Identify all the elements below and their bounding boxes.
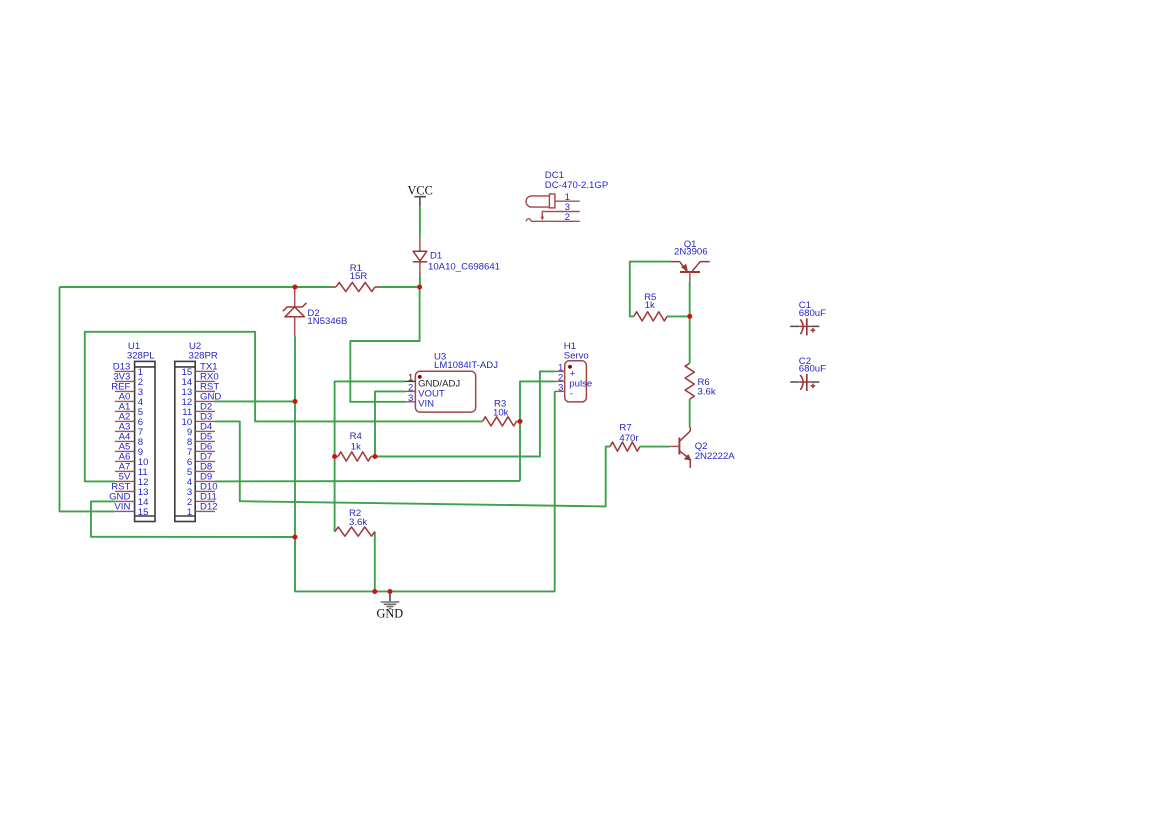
junction R4 left with U3 ADJ net [332,454,337,459]
ground symbol GND [376,591,403,620]
wire R7 right to Q2 base [640,446,670,448]
U3 pin 3 VIN [405,393,434,410]
wire R2 right lead down to bottom rail [374,532,376,592]
U1 pin 13 RST [111,482,148,499]
svg-text:-: - [570,388,573,399]
svg-text:VIN: VIN [418,399,434,410]
svg-text:2: 2 [408,382,413,393]
U3 pin 1 GND/ADJ [405,372,460,389]
svg-text:10k: 10k [493,408,509,419]
svg-text:2: 2 [565,212,570,223]
junction node B R1-D2 [293,285,298,290]
wire D1 cathode junction to U3 VIN pin 3 [350,287,419,402]
wire R1 right to D1 junction [379,286,420,288]
power flag VCC [408,183,433,206]
junction R2 at bottom rail [372,589,377,594]
U1 pin 8 A4 [115,432,143,449]
wire GND bottom rail [295,537,555,591]
DC1 pin 3 [540,202,579,220]
resistor R6 [685,363,716,399]
svg-text:VIN: VIN [114,502,130,513]
diode D1 [413,237,500,275]
svg-text:2N3906: 2N3906 [674,247,708,258]
wire U2 D3 pin 10 to R7 left [215,421,610,506]
U2 pin 15 TX1 [182,362,218,379]
wire H1 plus pin 1 to R4 right junction [375,371,555,456]
U2 pin 7 D6 [187,442,215,459]
wire D1 cathode to junction [419,275,421,287]
wire H1 pulse pin 2 down through R3 junction [520,381,555,481]
connector U2 328PR body [175,341,218,521]
svg-text:3.6k: 3.6k [349,517,367,528]
U2 pin 2 D11 [187,492,217,509]
wire left rail down to U1 VIN pin 15 [60,287,115,511]
svg-text:1k: 1k [351,442,361,453]
U2 pin 4 D9 [187,472,215,489]
capacitor C2 [790,356,826,391]
wire VCC to D1 anode [419,206,421,237]
wire Q1 emitter loop to R5 left [630,262,671,317]
U1 pin 1 D13 [113,362,143,379]
svg-text:328PR: 328PR [189,350,218,361]
U1 pin 12 5V [115,472,149,489]
svg-text:1: 1 [187,507,192,518]
U1 pin 5 A1 [115,402,143,419]
U2 pin 3 D10 [187,482,218,499]
connector H1 Servo body [564,341,589,402]
junction R5 right at R6 net [687,314,692,319]
U1 pin 14 GND [109,492,149,509]
svg-text:GND: GND [376,606,403,620]
U1 pin 2 3V3 [113,372,143,389]
U2 pin 13 RST [182,382,220,399]
junction U2 GND wire at D2 net [293,399,298,404]
U1 pin 3 REF [111,382,143,399]
svg-text:680uF: 680uF [799,364,826,375]
wire D2 junction to R1 left [295,286,332,288]
connector U1 328PL body [127,341,155,521]
svg-text:3: 3 [408,393,413,404]
wire R4 right lead [371,456,375,458]
svg-text:15: 15 [138,507,149,518]
H1 pin 1 + [555,362,576,379]
svg-text:R4: R4 [350,431,363,442]
U2 pin 14 RX0 [182,372,219,389]
DC1 pin 2 [526,212,580,223]
svg-text:3.6k: 3.6k [698,387,716,398]
junction node VCC D1-R1 [417,285,422,290]
svg-text:LM1084IT-ADJ: LM1084IT-ADJ [434,360,498,371]
resistor R4 [338,431,371,461]
svg-text:470r: 470r [619,433,639,444]
U1 pin 6 A2 [115,412,143,429]
wire GND junction left to U1 GND pin 14 [91,501,295,537]
junction R4 right with VOUT net [373,454,378,459]
svg-text:1N5346B: 1N5346B [307,316,347,327]
junction GND symbol at bottom rail [388,589,393,594]
resistor R1 [332,263,379,292]
junction R3 right with pulse net [518,419,523,424]
wire U3 GND-ADJ pin 1 down to R2 left [335,381,405,531]
svg-text:D1: D1 [430,251,442,262]
wire R5 right to junction [667,315,690,317]
U2 pin 10 D3 [182,412,215,429]
U1 pin 4 A0 [115,392,144,409]
H1 pin 2 pulse [555,372,593,389]
U2 pin 1 D12 [187,502,218,519]
U1 pin 11 A7 [115,462,148,479]
U2 pin 5 D8 [187,462,215,479]
svg-text:328PL: 328PL [127,350,155,361]
U1 pin 9 A5 [115,442,143,459]
resistor R2 [335,508,375,536]
wire node D9 row to U2 pin 4 [215,480,520,483]
connector DC1 barrel jack [526,170,608,208]
wire H1 minus pin 3 down to bottom rail [554,391,556,591]
resistor R7 [610,423,640,452]
wire R4 right junction up to U3 VOUT pin 2 [375,391,405,456]
wire node B left rail to D2 junction [60,286,296,288]
svg-text:3: 3 [558,382,563,393]
junction U1 GND wire at D2 net [293,535,298,540]
U2 pin 12 GND [182,392,222,409]
svg-text:1k: 1k [645,300,655,311]
wire R3 right lead to junction [517,420,521,422]
wire Q1 base down to R6 top [689,281,691,363]
transistor Q2 [670,427,736,468]
svg-text:Servo: Servo [564,350,589,361]
zener diode D2 [283,287,348,336]
U2 pin 9 D4 [187,422,215,439]
svg-text:VCC: VCC [408,183,433,197]
U2 pin 8 D5 [187,432,215,449]
svg-text:2N2222A: 2N2222A [695,451,736,462]
capacitor C1 [790,300,826,335]
svg-text:DC-470-2.1GP: DC-470-2.1GP [545,180,608,191]
resistor R3 [483,398,517,426]
U2 pin 11 D2 [182,402,215,419]
U1 pin 10 A6 [115,452,149,469]
DC1 pin 1 [555,192,580,203]
svg-text:1: 1 [565,192,570,203]
U3 pin 2 VOUT [405,382,445,399]
transistor Q1 [671,239,710,281]
U2 pin 6 D7 [187,452,215,469]
regulator U3 LM1084IT-ADJ body [415,351,498,412]
svg-text:10A10_C698641: 10A10_C698641 [428,262,500,273]
svg-text:15R: 15R [350,271,368,282]
svg-text:680uF: 680uF [799,308,826,319]
resistor R5 [634,292,667,321]
wire R6 bottom to Q2 collector [689,399,691,427]
U1 pin 7 A3 [115,422,143,439]
H1 pin 3 - [555,382,574,399]
svg-text:D12: D12 [200,502,218,513]
wire U2 GND pin 12 to D2 net junction [215,400,295,402]
wire R4 left lead [335,456,338,458]
U1 pin 15 VIN [114,502,148,519]
wire D2 anode down to GND junction [294,336,296,537]
wire U1 5V pin 12 to R3 left [85,332,483,482]
